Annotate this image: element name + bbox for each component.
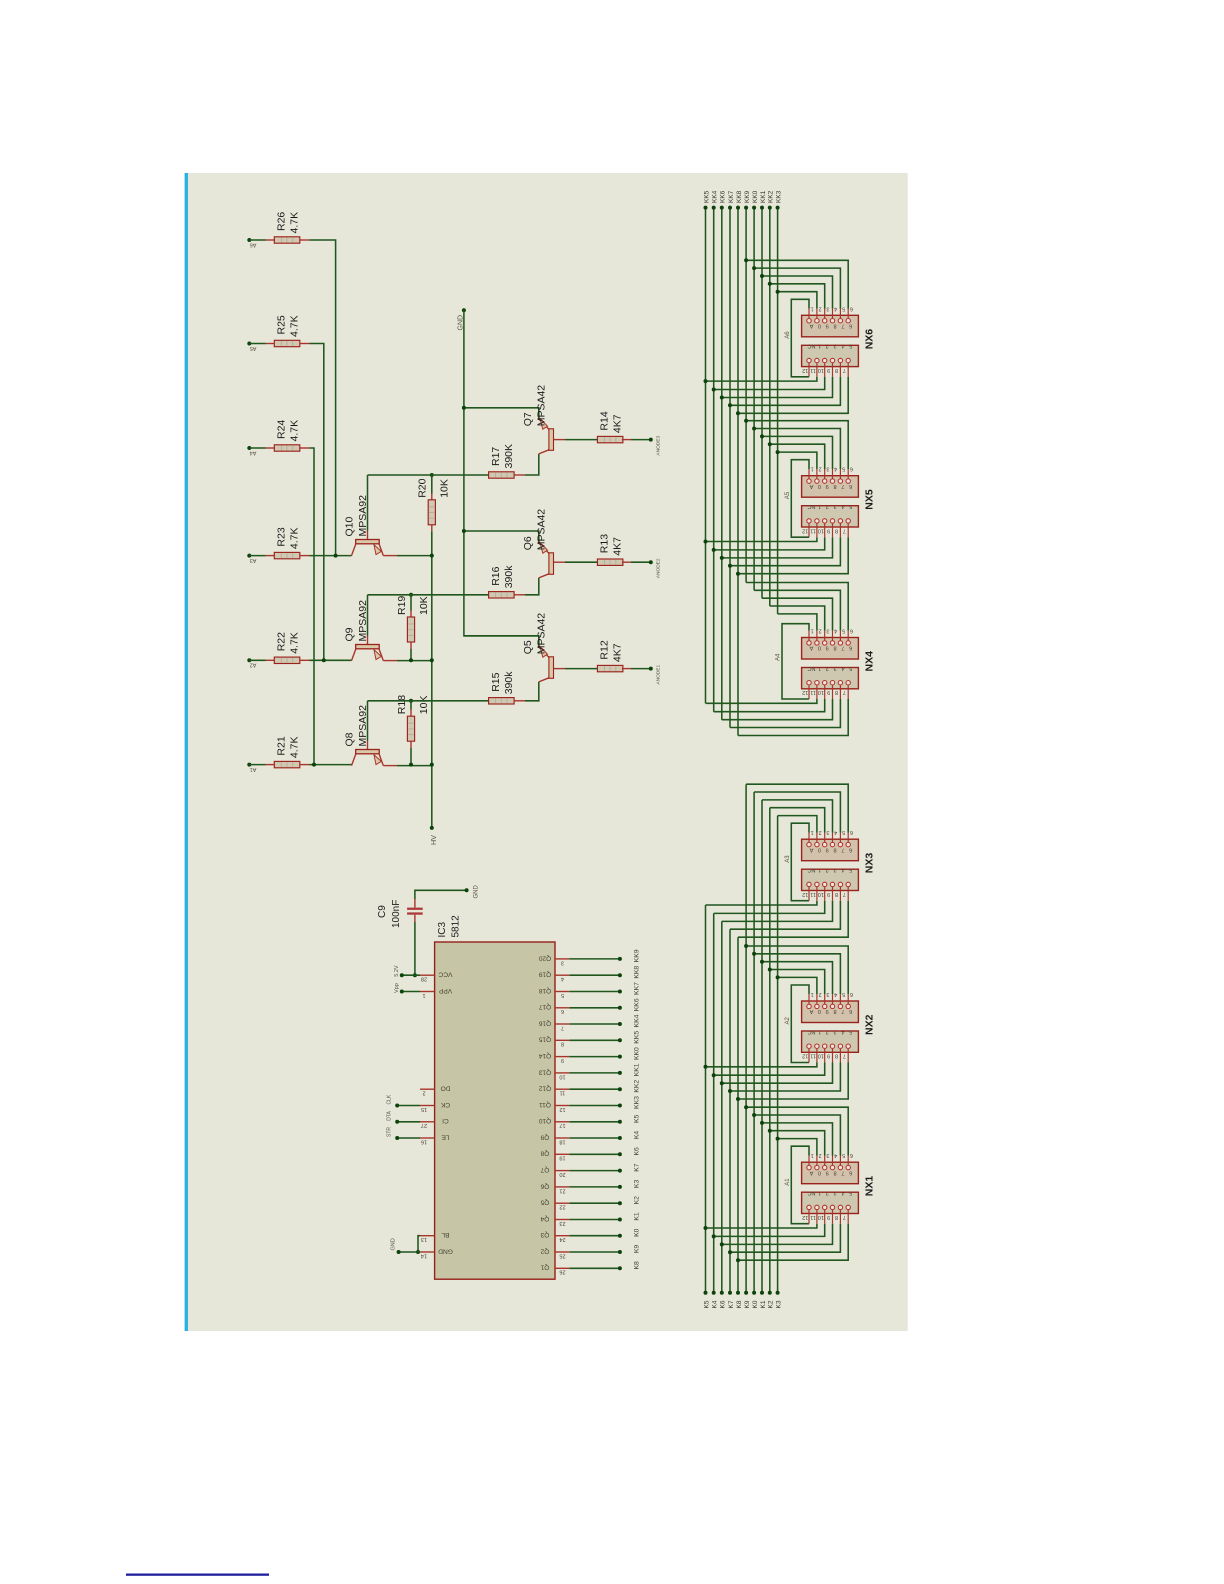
svg-text:KK9: KK9 xyxy=(633,949,640,962)
svg-text:5.2V: 5.2V xyxy=(394,965,400,977)
svg-text:4.7K: 4.7K xyxy=(289,527,301,549)
svg-text:A4: A4 xyxy=(250,449,257,455)
svg-text:6: 6 xyxy=(850,829,853,835)
svg-text:4K7: 4K7 xyxy=(612,643,624,662)
svg-text:5: 5 xyxy=(842,466,845,472)
svg-text:K2: K2 xyxy=(633,1196,640,1205)
svg-text:8: 8 xyxy=(835,367,838,373)
svg-text:0: 0 xyxy=(818,1008,821,1014)
svg-text:6: 6 xyxy=(849,645,852,651)
svg-text:3: 3 xyxy=(833,665,836,671)
svg-text:28: 28 xyxy=(421,976,427,982)
svg-text:4: 4 xyxy=(834,305,837,311)
svg-text:7: 7 xyxy=(841,645,844,651)
svg-text:KK6: KK6 xyxy=(633,998,640,1011)
svg-text:KK1: KK1 xyxy=(633,1063,640,1076)
svg-text:R24: R24 xyxy=(276,420,288,439)
svg-text:STR: STR xyxy=(387,1127,393,1137)
svg-text:Q10: Q10 xyxy=(538,1117,551,1124)
svg-text:17: 17 xyxy=(559,1122,565,1128)
svg-text:NC: NC xyxy=(807,1028,815,1034)
svg-text:R20: R20 xyxy=(417,478,429,497)
svg-text:GND: GND xyxy=(474,885,480,899)
svg-text:A6: A6 xyxy=(250,241,257,247)
svg-text:9: 9 xyxy=(826,1008,829,1014)
svg-text:Q20: Q20 xyxy=(538,954,551,961)
svg-text:8: 8 xyxy=(835,689,838,695)
svg-text:10: 10 xyxy=(818,367,824,373)
svg-text:7: 7 xyxy=(843,1214,846,1220)
svg-text:A2: A2 xyxy=(785,1016,791,1024)
svg-text:8: 8 xyxy=(835,1053,838,1059)
svg-text:KK3: KK3 xyxy=(775,190,782,203)
svg-text:8: 8 xyxy=(833,645,836,651)
svg-text:KK6: KK6 xyxy=(720,190,727,203)
svg-text:Q3: Q3 xyxy=(540,1231,549,1238)
svg-text:A5: A5 xyxy=(250,345,257,351)
svg-text:MPSA42: MPSA42 xyxy=(536,509,548,551)
svg-text:23: 23 xyxy=(559,1220,565,1226)
svg-text:Q14: Q14 xyxy=(538,1052,551,1059)
svg-text:5: 5 xyxy=(842,305,845,311)
svg-text:A: A xyxy=(809,323,813,329)
svg-text:4K7: 4K7 xyxy=(612,537,624,556)
svg-text:24: 24 xyxy=(559,1236,565,1242)
svg-text:HV: HV xyxy=(429,835,438,845)
svg-text:2: 2 xyxy=(422,1090,425,1096)
svg-text:MPSA92: MPSA92 xyxy=(357,705,369,747)
svg-text:8: 8 xyxy=(833,1008,836,1014)
svg-text:A: A xyxy=(809,1008,813,1014)
svg-text:GND: GND xyxy=(438,1247,453,1254)
svg-text:6: 6 xyxy=(850,1152,853,1158)
svg-text:KK1: KK1 xyxy=(760,190,767,203)
svg-text:12: 12 xyxy=(802,1053,808,1059)
svg-text:1: 1 xyxy=(811,991,814,997)
svg-text:2: 2 xyxy=(826,1028,829,1034)
svg-text:K0: K0 xyxy=(633,1228,640,1237)
svg-text:4: 4 xyxy=(834,991,837,997)
svg-text:Vpp: Vpp xyxy=(394,983,400,993)
svg-text:3: 3 xyxy=(826,466,829,472)
svg-text:5: 5 xyxy=(842,829,845,835)
svg-text:6: 6 xyxy=(850,991,853,997)
svg-text:K9: K9 xyxy=(633,1245,640,1254)
svg-text:13: 13 xyxy=(421,1236,427,1242)
svg-text:5: 5 xyxy=(842,991,845,997)
svg-text:7: 7 xyxy=(843,891,846,897)
svg-text:NX5: NX5 xyxy=(863,489,875,510)
svg-text:1: 1 xyxy=(811,1152,814,1158)
svg-text:R23: R23 xyxy=(276,527,288,546)
svg-text:K2: K2 xyxy=(768,1300,775,1308)
svg-text:K1: K1 xyxy=(760,1300,767,1308)
svg-text:Q8: Q8 xyxy=(540,1150,549,1157)
svg-text:NX6: NX6 xyxy=(863,329,875,350)
svg-text:9: 9 xyxy=(826,846,829,852)
svg-text:10: 10 xyxy=(818,1053,824,1059)
svg-text:GND: GND xyxy=(391,1238,397,1250)
svg-text:Q7: Q7 xyxy=(522,412,534,426)
svg-text:6: 6 xyxy=(849,1169,852,1175)
svg-text:8: 8 xyxy=(835,891,838,897)
svg-text:CI: CI xyxy=(442,1117,449,1124)
svg-text:A1: A1 xyxy=(785,1178,791,1186)
svg-text:10: 10 xyxy=(818,527,824,533)
svg-text:6: 6 xyxy=(849,1008,852,1014)
svg-text:4.7K: 4.7K xyxy=(289,315,301,337)
svg-text:1: 1 xyxy=(811,628,814,634)
svg-text:NX1: NX1 xyxy=(863,1176,875,1197)
svg-text:1: 1 xyxy=(811,466,814,472)
svg-text:KK3: KK3 xyxy=(633,1096,640,1109)
svg-text:10K: 10K xyxy=(418,596,430,615)
svg-text:8: 8 xyxy=(833,483,836,489)
svg-text:K1: K1 xyxy=(633,1212,640,1221)
svg-text:9: 9 xyxy=(827,1214,830,1220)
svg-text:MPSA42: MPSA42 xyxy=(536,385,548,427)
svg-text:NC: NC xyxy=(807,503,815,509)
svg-text:22: 22 xyxy=(559,1204,565,1210)
svg-text:2: 2 xyxy=(826,503,829,509)
svg-text:KK7: KK7 xyxy=(728,190,735,203)
svg-text:3: 3 xyxy=(833,503,836,509)
svg-text:R15: R15 xyxy=(490,672,502,691)
svg-text:0: 0 xyxy=(818,645,821,651)
svg-text:2: 2 xyxy=(819,829,822,835)
svg-text:C9: C9 xyxy=(377,905,388,918)
svg-text:R16: R16 xyxy=(490,566,502,585)
svg-text:Q5: Q5 xyxy=(540,1199,549,1206)
svg-text:ANODE2: ANODE2 xyxy=(656,558,662,578)
svg-text:2: 2 xyxy=(819,628,822,634)
svg-text:KK7: KK7 xyxy=(633,982,640,995)
svg-text:7: 7 xyxy=(843,1053,846,1059)
svg-text:R13: R13 xyxy=(599,534,611,553)
svg-text:10: 10 xyxy=(818,1214,824,1220)
svg-text:K3: K3 xyxy=(775,1300,782,1308)
svg-text:2: 2 xyxy=(826,1190,829,1196)
svg-text:4.7K: 4.7K xyxy=(289,420,301,442)
svg-text:12: 12 xyxy=(559,1106,565,1112)
svg-text:8: 8 xyxy=(833,846,836,852)
svg-text:K3: K3 xyxy=(633,1180,640,1189)
svg-text:6: 6 xyxy=(849,846,852,852)
svg-text:4.7K: 4.7K xyxy=(289,632,301,654)
svg-text:12: 12 xyxy=(802,527,808,533)
svg-text:R26: R26 xyxy=(276,212,288,231)
svg-text:1: 1 xyxy=(811,829,814,835)
svg-text:KK0: KK0 xyxy=(752,190,759,203)
svg-text:NX4: NX4 xyxy=(863,651,875,672)
svg-text:10K: 10K xyxy=(439,479,451,498)
svg-text:CK: CK xyxy=(440,1101,450,1108)
svg-text:11: 11 xyxy=(810,527,816,533)
svg-text:CLK: CLK xyxy=(387,1094,393,1104)
svg-text:9: 9 xyxy=(827,367,830,373)
svg-text:2: 2 xyxy=(819,1152,822,1158)
svg-text:K8: K8 xyxy=(736,1300,743,1308)
svg-text:12: 12 xyxy=(802,689,808,695)
svg-text:R19: R19 xyxy=(396,596,408,615)
svg-text:NC: NC xyxy=(807,867,815,873)
svg-text:R25: R25 xyxy=(276,315,288,334)
svg-text:IC3: IC3 xyxy=(437,922,448,938)
svg-text:KK5: KK5 xyxy=(703,190,710,203)
svg-text:A5: A5 xyxy=(785,491,791,499)
svg-text:MPSA92: MPSA92 xyxy=(357,495,369,537)
svg-text:6: 6 xyxy=(849,323,852,329)
svg-text:6: 6 xyxy=(849,483,852,489)
svg-text:KK4: KK4 xyxy=(633,1014,640,1027)
svg-text:1: 1 xyxy=(818,665,821,671)
svg-text:2: 2 xyxy=(819,991,822,997)
svg-text:7: 7 xyxy=(561,1024,564,1030)
svg-text:8: 8 xyxy=(835,527,838,533)
svg-text:A: A xyxy=(809,483,813,489)
svg-text:7: 7 xyxy=(841,323,844,329)
svg-text:9: 9 xyxy=(826,483,829,489)
svg-text:1: 1 xyxy=(818,343,821,349)
svg-text:5: 5 xyxy=(842,1152,845,1158)
svg-text:19: 19 xyxy=(559,1155,565,1161)
svg-text:5812: 5812 xyxy=(451,915,462,938)
svg-text:4: 4 xyxy=(841,1028,844,1034)
svg-text:Q9: Q9 xyxy=(344,627,356,641)
svg-text:K9: K9 xyxy=(744,1300,751,1308)
svg-text:390K: 390K xyxy=(503,444,515,469)
svg-text:14: 14 xyxy=(421,1252,427,1258)
svg-text:K6: K6 xyxy=(633,1147,640,1156)
svg-text:3: 3 xyxy=(826,991,829,997)
svg-text:NX3: NX3 xyxy=(863,853,875,874)
svg-text:5: 5 xyxy=(849,343,852,349)
svg-text:A4: A4 xyxy=(776,653,782,661)
svg-text:8: 8 xyxy=(835,1214,838,1220)
svg-text:NC: NC xyxy=(807,1190,815,1196)
svg-text:Q19: Q19 xyxy=(538,971,551,978)
svg-text:12: 12 xyxy=(802,1214,808,1220)
svg-text:4: 4 xyxy=(841,1190,844,1196)
svg-text:9: 9 xyxy=(826,1169,829,1175)
svg-text:11: 11 xyxy=(810,367,816,373)
svg-text:R14: R14 xyxy=(599,411,611,430)
svg-text:10: 10 xyxy=(818,689,824,695)
svg-text:A6: A6 xyxy=(785,331,791,339)
svg-text:0: 0 xyxy=(818,483,821,489)
svg-text:1: 1 xyxy=(818,1190,821,1196)
svg-text:2: 2 xyxy=(826,343,829,349)
svg-text:Q6: Q6 xyxy=(540,1182,549,1189)
svg-text:4K7: 4K7 xyxy=(612,414,624,433)
svg-text:Q15: Q15 xyxy=(538,1036,551,1043)
svg-text:0: 0 xyxy=(818,1169,821,1175)
svg-text:KK8: KK8 xyxy=(633,966,640,979)
svg-text:Q10: Q10 xyxy=(344,516,356,536)
svg-text:4: 4 xyxy=(841,503,844,509)
svg-text:Q5: Q5 xyxy=(522,640,534,654)
svg-text:4: 4 xyxy=(834,466,837,472)
svg-text:A3: A3 xyxy=(785,855,791,863)
svg-text:Q13: Q13 xyxy=(538,1068,551,1075)
svg-text:Q7: Q7 xyxy=(540,1166,549,1173)
svg-text:4: 4 xyxy=(841,867,844,873)
svg-text:NC: NC xyxy=(807,665,815,671)
svg-text:2: 2 xyxy=(819,466,822,472)
svg-text:3: 3 xyxy=(833,343,836,349)
svg-text:9: 9 xyxy=(827,689,830,695)
svg-text:R17: R17 xyxy=(490,447,502,466)
svg-text:7: 7 xyxy=(841,483,844,489)
svg-text:6: 6 xyxy=(850,466,853,472)
svg-text:10: 10 xyxy=(818,891,824,897)
svg-text:Q2: Q2 xyxy=(540,1247,549,1254)
svg-text:K4: K4 xyxy=(633,1131,640,1140)
svg-text:4.7K: 4.7K xyxy=(289,736,301,758)
svg-text:MPSA42: MPSA42 xyxy=(536,613,548,655)
svg-text:ANODE1: ANODE1 xyxy=(656,665,662,685)
svg-text:VCC: VCC xyxy=(438,971,452,978)
svg-text:3: 3 xyxy=(833,1028,836,1034)
svg-text:A: A xyxy=(809,1169,813,1175)
svg-text:2: 2 xyxy=(826,867,829,873)
svg-text:A3: A3 xyxy=(250,557,257,563)
svg-text:KK2: KK2 xyxy=(633,1080,640,1093)
svg-text:5: 5 xyxy=(849,1190,852,1196)
svg-text:6: 6 xyxy=(850,305,853,311)
svg-text:3: 3 xyxy=(833,867,836,873)
svg-text:4: 4 xyxy=(561,976,564,982)
svg-text:9: 9 xyxy=(827,527,830,533)
svg-text:11: 11 xyxy=(810,1053,816,1059)
svg-text:26: 26 xyxy=(559,1269,565,1275)
svg-text:3: 3 xyxy=(833,1190,836,1196)
svg-text:27: 27 xyxy=(421,1122,427,1128)
svg-text:1: 1 xyxy=(818,1028,821,1034)
svg-text:5: 5 xyxy=(842,628,845,634)
svg-text:GND: GND xyxy=(458,315,465,331)
svg-text:R22: R22 xyxy=(276,632,288,651)
svg-text:7: 7 xyxy=(841,1008,844,1014)
svg-text:3: 3 xyxy=(561,959,564,965)
svg-text:Q17: Q17 xyxy=(538,1003,551,1010)
svg-text:2: 2 xyxy=(826,665,829,671)
svg-text:390k: 390k xyxy=(503,565,515,589)
svg-text:2: 2 xyxy=(819,305,822,311)
svg-text:K0: K0 xyxy=(752,1300,759,1308)
svg-text:Q12: Q12 xyxy=(538,1085,551,1092)
svg-text:KK0: KK0 xyxy=(633,1047,640,1060)
svg-text:8: 8 xyxy=(561,1041,564,1047)
svg-text:A2: A2 xyxy=(250,662,257,668)
svg-text:R21: R21 xyxy=(276,736,288,755)
svg-text:Q16: Q16 xyxy=(538,1019,551,1026)
svg-text:MPSA92: MPSA92 xyxy=(357,600,369,642)
svg-text:10: 10 xyxy=(559,1073,565,1079)
svg-text:9: 9 xyxy=(827,891,830,897)
svg-text:12: 12 xyxy=(802,891,808,897)
svg-text:4.7K: 4.7K xyxy=(289,212,301,234)
svg-text:18: 18 xyxy=(559,1138,565,1144)
svg-text:NX2: NX2 xyxy=(863,1014,875,1035)
svg-text:1: 1 xyxy=(811,305,814,311)
svg-text:NC: NC xyxy=(807,343,815,349)
svg-text:3: 3 xyxy=(826,305,829,311)
svg-text:KK9: KK9 xyxy=(744,190,751,203)
svg-text:4: 4 xyxy=(834,829,837,835)
svg-text:K7: K7 xyxy=(728,1300,735,1308)
svg-text:9: 9 xyxy=(826,323,829,329)
svg-text:3: 3 xyxy=(826,1152,829,1158)
svg-text:KK2: KK2 xyxy=(768,190,775,203)
svg-text:9: 9 xyxy=(561,1057,564,1063)
svg-text:KK4: KK4 xyxy=(712,190,719,203)
svg-text:K5: K5 xyxy=(633,1114,640,1123)
svg-text:VPP: VPP xyxy=(438,987,452,994)
svg-text:4: 4 xyxy=(834,1152,837,1158)
svg-text:Q18: Q18 xyxy=(538,987,551,994)
svg-text:A: A xyxy=(809,846,813,852)
svg-text:16: 16 xyxy=(421,1138,427,1144)
svg-text:1: 1 xyxy=(818,867,821,873)
svg-text:4: 4 xyxy=(834,628,837,634)
svg-text:7: 7 xyxy=(841,1169,844,1175)
svg-text:A: A xyxy=(809,645,813,651)
svg-text:1: 1 xyxy=(818,503,821,509)
svg-text:5: 5 xyxy=(561,992,564,998)
svg-text:6: 6 xyxy=(850,628,853,634)
svg-text:Q4: Q4 xyxy=(540,1215,549,1222)
svg-text:8: 8 xyxy=(833,1169,836,1175)
svg-text:LE: LE xyxy=(441,1133,450,1140)
svg-text:11: 11 xyxy=(810,689,816,695)
svg-text:20: 20 xyxy=(559,1171,565,1177)
svg-text:Q8: Q8 xyxy=(344,732,356,746)
svg-text:25: 25 xyxy=(559,1252,565,1258)
svg-text:15: 15 xyxy=(421,1106,427,1112)
svg-text:21: 21 xyxy=(559,1187,565,1193)
svg-text:K6: K6 xyxy=(720,1300,727,1308)
svg-text:K5: K5 xyxy=(703,1300,710,1308)
svg-text:Q9: Q9 xyxy=(540,1133,549,1140)
svg-text:BL: BL xyxy=(441,1231,449,1238)
svg-text:7: 7 xyxy=(841,846,844,852)
svg-text:7: 7 xyxy=(843,527,846,533)
svg-text:K7: K7 xyxy=(633,1163,640,1172)
svg-text:DTA: DTA xyxy=(387,1111,393,1121)
svg-text:11: 11 xyxy=(560,1090,566,1096)
svg-text:Q1: Q1 xyxy=(540,1264,549,1271)
svg-text:100nF: 100nF xyxy=(391,900,402,928)
svg-text:8: 8 xyxy=(833,323,836,329)
svg-text:5: 5 xyxy=(849,1028,852,1034)
svg-text:3: 3 xyxy=(826,628,829,634)
svg-text:K4: K4 xyxy=(712,1300,719,1308)
svg-text:1: 1 xyxy=(422,992,425,998)
svg-text:ANODE3: ANODE3 xyxy=(656,436,662,456)
svg-text:5: 5 xyxy=(849,503,852,509)
svg-text:0: 0 xyxy=(818,323,821,329)
svg-text:7: 7 xyxy=(843,689,846,695)
svg-text:KK5: KK5 xyxy=(633,1031,640,1044)
svg-text:7: 7 xyxy=(843,367,846,373)
svg-text:5: 5 xyxy=(849,665,852,671)
svg-text:3: 3 xyxy=(826,829,829,835)
svg-text:4: 4 xyxy=(841,665,844,671)
svg-text:Q6: Q6 xyxy=(522,536,534,550)
svg-text:9: 9 xyxy=(827,1053,830,1059)
svg-text:R12: R12 xyxy=(599,640,611,659)
